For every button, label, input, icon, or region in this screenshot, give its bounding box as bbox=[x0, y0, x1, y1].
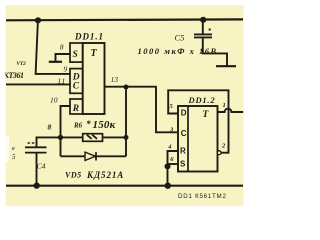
capacitor C5: lead from bus bbox=[200, 17, 206, 23]
svg-text:VD5: VD5 bbox=[65, 171, 82, 180]
DD1.2 divider bbox=[187, 106, 189, 172]
svg-text:S: S bbox=[180, 159, 186, 168]
DD1.1 R input cell bbox=[70, 99, 83, 114]
wire: VD5 diode row bbox=[61, 155, 127, 157]
svg-text:C4: C4 bbox=[37, 162, 46, 171]
capacitor C4 polarity dashes bbox=[28, 142, 31, 144]
wire: C input (pin 11) long wire from left edge bbox=[6, 83, 71, 85]
node: junction dot R6 right bbox=[124, 135, 129, 140]
svg-text:DD1.1: DD1.1 bbox=[74, 32, 104, 42]
svg-text:150к: 150к bbox=[93, 119, 116, 131]
node: junction dot pin6 bbox=[165, 163, 171, 169]
wire: pin 3 C input from DD1.1 pin13 bbox=[156, 87, 178, 133]
node: junction dot pin13/feedback bbox=[124, 85, 129, 90]
node: junction dot DD1.2 S/R on bus bbox=[165, 183, 171, 189]
svg-text:R: R bbox=[72, 104, 79, 114]
wire: top +supply bus bbox=[6, 18, 243, 21]
C5 plus sign bbox=[209, 29, 211, 31]
svg-text:R: R bbox=[180, 147, 186, 156]
wire: pin 8 step wire into S input bbox=[49, 61, 62, 63]
wire: pin 10 R input down to R6 node bbox=[61, 106, 71, 156]
DD1.1 D/C input cell bbox=[70, 69, 83, 94]
capacitor C4 bottom plate bbox=[25, 152, 47, 154]
node A: junction dot top-left bbox=[35, 17, 41, 23]
svg-text:VT2: VT2 bbox=[17, 61, 27, 67]
svg-text:C5: C5 bbox=[175, 33, 185, 43]
svg-text:9: 9 bbox=[64, 64, 68, 73]
wire: vertical feedback to R6/VD5 bbox=[125, 87, 127, 156]
svg-text:4: 4 bbox=[167, 143, 172, 150]
paper background bbox=[5, 5, 244, 207]
svg-text:8: 8 bbox=[60, 42, 64, 51]
svg-text:DD1.2: DD1.2 bbox=[188, 95, 216, 105]
wire: R6 right segment bbox=[103, 136, 127, 138]
svg-text:10: 10 bbox=[50, 96, 58, 105]
svg-text:DD1 К561ТМ2: DD1 К561ТМ2 bbox=[178, 193, 227, 200]
svg-text:1000 мкФ x 16В: 1000 мкФ x 16В bbox=[138, 46, 218, 56]
svg-text:КД521А: КД521А bbox=[86, 170, 124, 180]
svg-text:T: T bbox=[91, 48, 98, 59]
resistor R6 body bbox=[83, 134, 103, 142]
svg-text:11: 11 bbox=[58, 76, 67, 85]
node: junction dot pin10/R6 row bbox=[58, 135, 63, 140]
inversion bubble pin 2 bbox=[217, 151, 221, 155]
diode VD5 triangle bbox=[85, 152, 96, 160]
svg-text:C: C bbox=[181, 129, 187, 138]
wire: pin 1 output with hop over feedback bbox=[218, 109, 244, 112]
resistor R6 power marks bbox=[87, 135, 92, 139]
wire: C5 bottom lead to ground bbox=[203, 37, 227, 66]
svg-text:КТ361: КТ361 bbox=[3, 71, 25, 80]
flip-flop DD1.1 main box bbox=[83, 43, 105, 114]
flip-flop DD1.2 box bbox=[178, 106, 218, 172]
diode VD5 cathode bar bbox=[95, 152, 97, 160]
svg-text:R6: R6 bbox=[73, 122, 83, 130]
wire: bottom 0V bus bbox=[6, 185, 243, 187]
ground symbol bbox=[216, 65, 236, 67]
DD1.1 S input cell bbox=[70, 43, 83, 62]
wire: R6 row left segment bbox=[37, 137, 83, 147]
white scan margins bbox=[0, 0, 251, 5]
wire: pin 4 R input to bus bbox=[168, 151, 179, 186]
capacitor C4 top plate bbox=[25, 146, 47, 148]
wire: C4 bottom lead bbox=[36, 153, 38, 186]
wire: pin 6 S input bbox=[168, 163, 179, 165]
svg-text:S: S bbox=[73, 50, 78, 60]
node: junction dot C4 on bus bbox=[34, 182, 40, 188]
svg-text:5: 5 bbox=[12, 153, 16, 161]
svg-text:8: 8 bbox=[48, 123, 52, 132]
capacitor C5 top plate bbox=[194, 33, 212, 35]
wire: from node A down to pin 9 (D input DD1.1) bbox=[36, 21, 71, 74]
svg-text:*: * bbox=[87, 119, 92, 129]
svg-text:13: 13 bbox=[111, 75, 119, 84]
wire: pin 13 output of DD1.1 bbox=[105, 86, 157, 88]
svg-text:в: в bbox=[12, 146, 15, 152]
svg-text:1: 1 bbox=[223, 102, 226, 109]
svg-text:D: D bbox=[181, 109, 187, 118]
capacitor C5 bottom plate bbox=[194, 36, 212, 38]
svg-text:C: C bbox=[73, 82, 80, 92]
wire: pin 5 D input with over-the-top feedback bbox=[168, 90, 228, 152]
